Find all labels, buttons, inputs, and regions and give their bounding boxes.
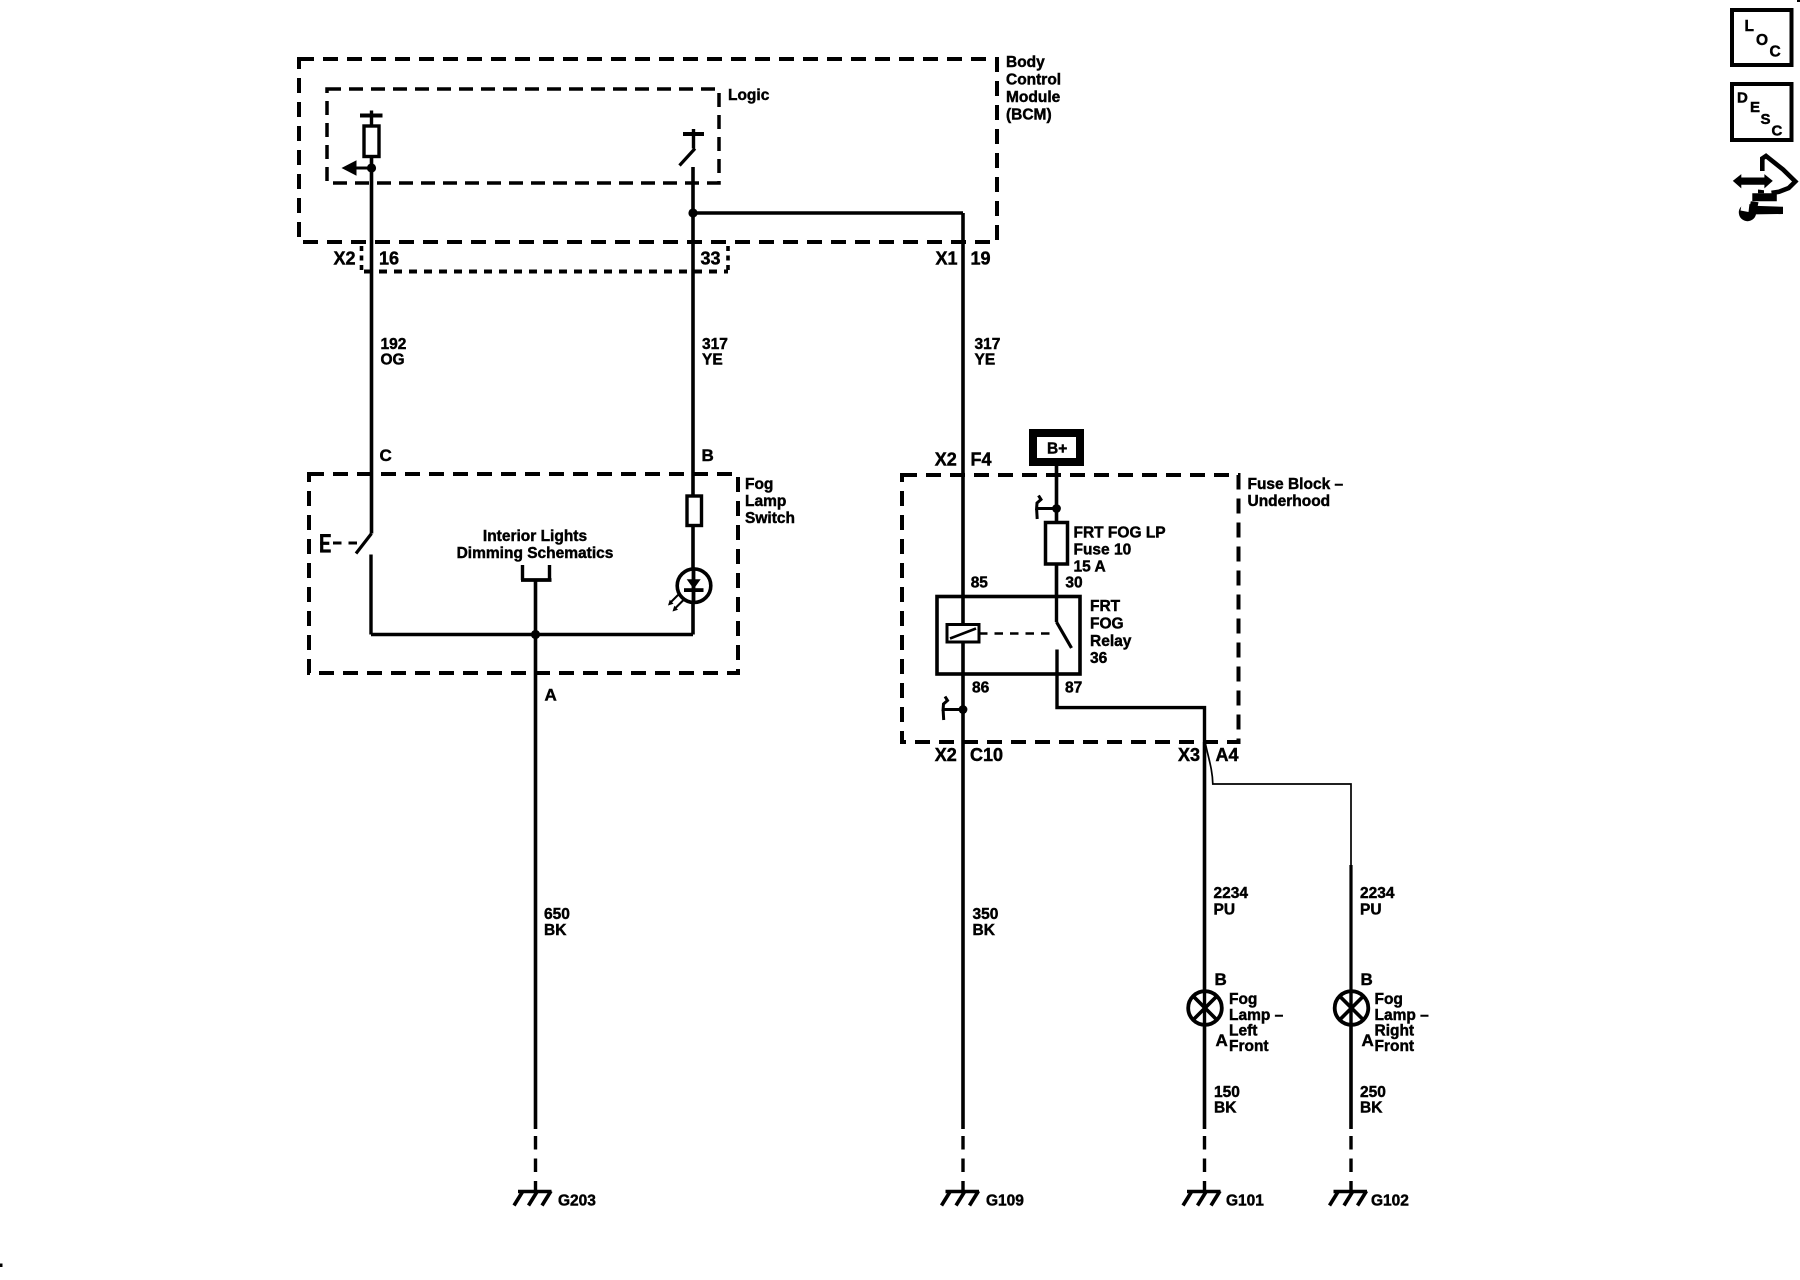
svg-text:E: E <box>1750 99 1760 116</box>
wire: relay pin 87 down then right to pin X3-A4 <box>1057 674 1205 742</box>
wire: circuit 317 YE from pin 33 to fog lamp switch pin B <box>691 242 695 496</box>
wire: resistor R2 to LED D1 <box>691 526 695 570</box>
label: 2234 PU (left) <box>1214 885 1249 919</box>
lamp L2: Fog Lamp - Right Front <box>1335 991 1369 1025</box>
ground G101 <box>1183 1191 1221 1206</box>
ground G102 <box>1330 1191 1368 1206</box>
LED D1 (fog lamp switch indicator) <box>668 569 711 612</box>
svg-text:Module: Module <box>1006 89 1061 106</box>
svg-text:Logic: Logic <box>728 87 770 104</box>
svg-text:BK: BK <box>544 922 567 939</box>
label: Fog Lamp - Right Front <box>1375 991 1430 1055</box>
svg-text:A: A <box>1362 1031 1374 1050</box>
wire: dashed lead-in to G102 <box>1349 1136 1352 1190</box>
dashed actuation link coil to contact <box>979 632 1052 635</box>
resistor R1 (BCM driver output, logic) <box>360 111 383 157</box>
wire: circuit 350 BK from pin C10 to G109 <box>961 742 965 1129</box>
label: 317 YE (X1-19 wire) <box>975 336 1001 369</box>
wire: circuit 2234 PU to left fog lamp pin B <box>1203 742 1207 992</box>
svg-text:X1: X1 <box>936 249 958 269</box>
svg-text:Fuse Block –: Fuse Block – <box>1248 476 1344 493</box>
svg-text:B: B <box>1361 970 1373 989</box>
LOC reference box (top right) <box>1732 10 1792 65</box>
label: 317 YE (pin 33 wire) <box>702 336 728 369</box>
svg-text:(BCM): (BCM) <box>1006 107 1052 124</box>
wire: circuit 250 BK from right lamp pin A to G102 <box>1349 1025 1353 1130</box>
svg-text:Switch: Switch <box>745 510 795 527</box>
svg-text:G203: G203 <box>558 1193 596 1210</box>
svg-text:85: 85 <box>971 575 989 592</box>
svg-text:650: 650 <box>544 906 570 923</box>
wire: bracket stem down to node J3 <box>534 580 538 635</box>
arrow: driver output arrow pointing left <box>342 160 372 176</box>
svg-text:G102: G102 <box>1371 1193 1409 1210</box>
wire: relay pin 86 to fuse block pin C10 <box>961 674 965 742</box>
svg-text:250: 250 <box>1360 1084 1386 1101</box>
svg-text:317: 317 <box>702 336 728 353</box>
relay coil (pins 85-86) <box>947 597 979 675</box>
ground G203 <box>514 1191 552 1206</box>
svg-text:A: A <box>1216 1031 1228 1050</box>
svg-text:30: 30 <box>1065 575 1082 592</box>
svg-text:Fog: Fog <box>745 476 773 493</box>
wire: circuit 650 BK from pin A to G203 <box>534 710 538 1129</box>
svg-text:150: 150 <box>1214 1084 1240 1101</box>
label: Body Control Module (BCM) <box>1006 54 1061 124</box>
label: 192 OG <box>381 336 407 369</box>
svg-text:Lamp –: Lamp – <box>1375 1007 1430 1024</box>
svg-text:B: B <box>702 446 714 465</box>
svg-text:F4: F4 <box>971 450 992 470</box>
resistor R2 (fog lamp switch illumination) <box>687 496 702 526</box>
corner speck top right <box>1797 0 1800 2</box>
svg-text:C: C <box>1770 44 1781 61</box>
svg-text:A: A <box>545 686 557 705</box>
svg-text:Lamp: Lamp <box>745 493 786 510</box>
svg-text:YE: YE <box>702 352 723 369</box>
svg-text:Control: Control <box>1006 72 1061 89</box>
svg-text:Interior Lights: Interior Lights <box>483 528 587 545</box>
corner speck bottom left <box>0 1264 3 1268</box>
wire: pin 16 output down through BCM edge <box>370 168 374 242</box>
fuse F1: FRT FOG LP Fuse 10 15 A <box>1046 523 1068 565</box>
clip symbol on B+ feed <box>1037 496 1061 520</box>
svg-text:Fog: Fog <box>1375 991 1403 1008</box>
wire: node J2 to pin X1-19 (horizontal) <box>693 211 963 215</box>
logic box (inside BCM) <box>327 89 719 183</box>
svg-text:350: 350 <box>973 906 999 923</box>
clip symbol on pin 86 wire <box>943 697 967 721</box>
svg-text:BK: BK <box>1214 1100 1237 1117</box>
component box: Fog Lamp Switch <box>309 474 738 673</box>
wire: pin X1-19 down through BCM edge <box>961 213 965 242</box>
svg-text:192: 192 <box>381 336 407 353</box>
ground G109 <box>942 1191 980 1206</box>
wire: dashed lead-in to G203 <box>534 1136 537 1190</box>
svg-text:YE: YE <box>975 352 996 369</box>
wire: pin F4 to relay pin 85 <box>961 475 965 597</box>
svg-text:Fuse 10: Fuse 10 <box>1074 542 1132 559</box>
node J1: junction dot at driver output <box>367 163 376 172</box>
svg-text:X3: X3 <box>1178 745 1200 765</box>
svg-text:19: 19 <box>971 249 991 269</box>
svg-text:S: S <box>1761 111 1771 128</box>
connector separator right of 33 (dashed) <box>726 246 730 270</box>
wire: dashed lead-in to G101 <box>1203 1136 1206 1190</box>
svg-text:Front: Front <box>1229 1038 1269 1055</box>
svg-text:2234: 2234 <box>1214 885 1249 902</box>
svg-text:A4: A4 <box>1216 745 1239 765</box>
svg-text:Relay: Relay <box>1090 633 1132 650</box>
svg-text:PU: PU <box>1360 902 1382 919</box>
icon: wiring repair (double arrow, curved arrow outline, wrench) <box>1733 156 1796 221</box>
wire: switch S1 to node J2 <box>691 167 695 213</box>
svg-text:Body: Body <box>1006 54 1045 71</box>
svg-text:Fog: Fog <box>1229 991 1257 1008</box>
svg-text:FRT FOG LP: FRT FOG LP <box>1074 525 1166 542</box>
svg-text:BK: BK <box>973 922 996 939</box>
module box U1: Body Control Module (BCM) <box>299 59 997 242</box>
svg-text:87: 87 <box>1065 680 1082 697</box>
wire: circuit 317 YE from pin X1-19 to fuse block pin F4 <box>961 242 965 475</box>
switch S2: fog lamp switch contact with E detent <box>356 534 372 635</box>
svg-text:G109: G109 <box>986 1193 1024 1210</box>
label: Fog Lamp Switch <box>745 476 795 527</box>
svg-text:FOG: FOG <box>1090 616 1124 633</box>
svg-text:86: 86 <box>972 680 990 697</box>
wire: circuit 192 OG from pin 16 to fog lamp switch pin C <box>370 242 374 534</box>
lamp L1: Fog Lamp - Left Front <box>1188 991 1222 1025</box>
svg-text:36: 36 <box>1090 650 1108 667</box>
switch S1 (BCM logic switch, pin 33) <box>680 129 705 166</box>
svg-text:PU: PU <box>1214 902 1236 919</box>
wire: resistor R1 bottom to node J1 <box>370 157 374 169</box>
svg-text:16: 16 <box>379 249 399 269</box>
label: FRT FOG LP Fuse 10 15 A <box>1074 525 1166 576</box>
svg-text:Lamp –: Lamp – <box>1229 1007 1284 1024</box>
svg-text:O: O <box>1756 32 1768 49</box>
svg-text:X2: X2 <box>935 450 957 470</box>
connector separator X2 (dashed) <box>360 246 364 270</box>
svg-text:L: L <box>1745 18 1754 35</box>
wire: dashed lead-in to G109 <box>961 1136 964 1190</box>
svg-text:Right: Right <box>1375 1023 1415 1040</box>
wire: fog lamp switch common rail (horizontal) <box>371 633 693 637</box>
relay contact blade (pins 30-87) <box>1057 597 1072 675</box>
svg-text:Underhood: Underhood <box>1248 493 1331 510</box>
svg-text:G101: G101 <box>1226 1193 1264 1210</box>
svg-text:33: 33 <box>701 249 721 269</box>
label: 150 BK <box>1214 1084 1240 1117</box>
svg-text:C: C <box>380 446 392 465</box>
svg-text:FRT: FRT <box>1090 598 1121 615</box>
wire: thin branch from pin A4 to right fog lamp (S-curve and horizontal) <box>1206 744 1352 865</box>
label: E (switch position) <box>320 534 331 553</box>
bracket: interior lights dimming schematics tie-in <box>521 565 552 580</box>
DESC reference box <box>1732 84 1792 140</box>
label: FRT FOG Relay 36 <box>1090 598 1132 667</box>
label: 2234 PU (right) <box>1360 885 1395 919</box>
svg-text:D: D <box>1737 90 1748 107</box>
svg-text:Left: Left <box>1229 1023 1257 1040</box>
power symbol B+ <box>1033 433 1080 462</box>
relay K1: FRT FOG Relay 36 <box>937 597 1080 675</box>
node J2: junction dot pin 33 net <box>688 208 697 217</box>
label: 650 BK <box>544 906 570 939</box>
label: Interior Lights Dimming Schematics <box>457 528 614 562</box>
svg-text:15 A: 15 A <box>1074 559 1106 576</box>
connector strip dotted line below BCM <box>364 270 728 274</box>
svg-text:317: 317 <box>975 336 1001 353</box>
label: 250 BK <box>1360 1084 1386 1117</box>
wire: B+ feed down to fuse <box>1055 462 1059 522</box>
svg-text:X2: X2 <box>935 745 957 765</box>
svg-text:C10: C10 <box>970 745 1003 765</box>
svg-text:B+: B+ <box>1047 441 1067 458</box>
svg-text:OG: OG <box>381 352 405 369</box>
wire: LED D1 bottom to switch common rail <box>691 603 695 635</box>
wire: pin 33 down through BCM edge <box>691 213 695 242</box>
svg-text:Dimming Schematics: Dimming Schematics <box>457 545 614 562</box>
label: 350 BK <box>973 906 999 939</box>
svg-text:X2: X2 <box>334 249 356 269</box>
wire: fuse F1 to relay pin 30 <box>1055 564 1059 597</box>
label: Fog Lamp - Left Front <box>1229 991 1284 1055</box>
wire: node J3 down through box edge to pin A <box>534 635 538 711</box>
module box: Fuse Block - Underhood <box>902 475 1239 742</box>
svg-text:B: B <box>1215 970 1227 989</box>
svg-text:C: C <box>1772 123 1783 140</box>
label: Fuse Block - Underhood <box>1248 476 1344 510</box>
svg-text:BK: BK <box>1360 1100 1383 1117</box>
dashed linkage from E to switch blade <box>333 542 357 545</box>
svg-text:2234: 2234 <box>1360 885 1395 902</box>
svg-text:Front: Front <box>1375 1038 1415 1055</box>
node J3: junction dot on common rail <box>531 630 540 639</box>
wire: circuit 150 BK from left lamp pin A to G101 <box>1203 1025 1207 1130</box>
